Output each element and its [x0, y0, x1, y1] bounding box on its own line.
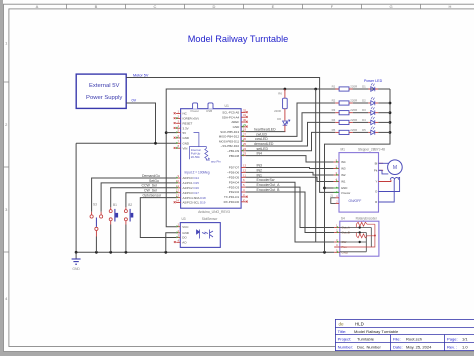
- resistor R5: [332, 128, 369, 135]
- svg-text:RotaryEncoder: RotaryEncoder: [356, 217, 378, 221]
- wire EncoderOut_B: [246, 192, 335, 233]
- svg-text:B: B: [95, 4, 98, 9]
- jumper J1 ON/OFF: [330, 194, 361, 204]
- svg-text:TX-PD1-D1: TX-PD1-D1: [224, 195, 240, 199]
- junction 0V/GND: [154, 142, 157, 145]
- svg-text:ccwLED: ccwLED: [255, 137, 268, 141]
- svg-text:13: 13: [243, 164, 247, 168]
- svg-text:MISO-PB4-D12: MISO-PB4-D12: [219, 135, 240, 139]
- U1 right unconnected x-marks: [246, 111, 248, 202]
- svg-text:Power LED: Power LED: [364, 79, 383, 83]
- svg-text:Input Z = 100Meg: Input Z = 100Meg: [185, 171, 210, 175]
- svg-text:Motor 5V: Motor 5V: [133, 73, 149, 77]
- svg-text:R6: R6: [278, 91, 282, 95]
- svg-text:11: 11: [243, 173, 246, 177]
- svg-text:setLED: setLED: [257, 147, 269, 151]
- svg-text:DO: DO: [182, 236, 187, 240]
- svg-text:EncoderOut_A: EncoderOut_A: [257, 183, 281, 187]
- svg-text:D5: D5: [362, 128, 366, 132]
- wire CCW_Sel: [111, 188, 176, 208]
- svg-text:USB: USB: [206, 109, 212, 113]
- svg-text:24: 24: [243, 147, 247, 151]
- svg-text:Title:: Title:: [338, 329, 347, 334]
- svg-text:A: A: [36, 4, 39, 9]
- wire IN2: [246, 172, 334, 175]
- wire motor lead Y red: [379, 180, 391, 182]
- svg-text:GND: GND: [182, 231, 189, 235]
- wire OptoSensor: [140, 198, 176, 238]
- svg-text:IN4: IN4: [257, 152, 263, 156]
- wire motor Pk lead: [379, 170, 389, 174]
- svg-text:RX-PD0-D0: RX-PD0-D0: [224, 200, 240, 204]
- ruler row ticks: [4, 82, 9, 252]
- svg-text:A0/PC0 D14: A0/PC0 D14: [183, 176, 200, 180]
- title block: [335, 319, 474, 350]
- svg-text:Power: Power: [191, 109, 200, 113]
- svg-text:R4: R4: [332, 118, 336, 122]
- svg-text:12: 12: [243, 168, 247, 172]
- M1 right pins: [379, 163, 384, 202]
- power supply PS1: [76, 74, 126, 108]
- LED D2: [362, 97, 390, 105]
- svg-text:cwLED: cwLED: [256, 132, 268, 136]
- LED D3: [362, 107, 390, 115]
- svg-text:B1: B1: [113, 203, 117, 207]
- svg-text:AREF: AREF: [231, 120, 239, 124]
- svg-text:A4/PC4-SDA D18: A4/PC4-SDA D18: [183, 196, 207, 200]
- svg-text:File:: File:: [393, 337, 401, 342]
- push button B1: [109, 203, 118, 252]
- svg-text:3.3V: 3.3V: [183, 126, 189, 130]
- U3 pin green marks: [177, 225, 179, 238]
- svg-text:any Pin: any Pin: [211, 160, 221, 164]
- svg-text:B2: B2: [128, 203, 132, 207]
- LED D1: [362, 83, 390, 91]
- svg-text:J1: J1: [330, 194, 333, 198]
- svg-text:19: 19: [243, 128, 247, 132]
- svg-text:CW_Sel: CW_Sel: [144, 189, 157, 193]
- S4 pin names: [342, 226, 350, 255]
- U1 left unconnected pin x-marks: [174, 112, 176, 203]
- svg-text:IN1: IN1: [341, 180, 346, 184]
- M1 GND Vmotor pin stubs: [334, 188, 339, 192]
- wire motor lead O blue: [379, 178, 400, 192]
- svg-text:1/1: 1/1: [462, 337, 468, 342]
- svg-text:D3: D3: [362, 108, 366, 112]
- S4 contact dots: [359, 226, 361, 243]
- wire ccwLED: [246, 113, 336, 142]
- U1 right pin names: [219, 111, 240, 204]
- svg-text:1.0: 1.0: [462, 344, 468, 349]
- junction GND rail B1: [109, 251, 112, 254]
- U3 AO unconnected x-mark: [174, 241, 176, 243]
- svg-text:Rev. :: Rev. :: [447, 344, 457, 349]
- svg-text:heartbeatLED: heartbeatLED: [254, 128, 276, 132]
- wire DemandGo: [92, 178, 177, 212]
- junction GND rail U3: [164, 251, 167, 254]
- microcontroller U1 Arduino_UNO_REV3: [181, 103, 242, 214]
- svg-text:CCW_Sel: CCW_Sel: [142, 184, 158, 188]
- svg-text:May. 25, 2024: May. 25, 2024: [406, 344, 432, 349]
- S4 pin numbers: [336, 224, 338, 253]
- svg-text:Stepper_28BYJ-48: Stepper_28BYJ-48: [358, 147, 385, 151]
- svg-text:IN3: IN3: [341, 167, 346, 171]
- svg-text:Doc. Number: Doc. Number: [357, 344, 381, 349]
- switch S3 SPDT: [90, 203, 103, 253]
- svg-text:D4: D4: [362, 118, 366, 122]
- wire 0V: [126, 103, 155, 143]
- svg-text:220R: 220R: [274, 109, 281, 113]
- svg-text:0V: 0V: [132, 99, 137, 103]
- svg-text:Power Supply: Power Supply: [86, 95, 122, 101]
- svg-text:S3: S3: [93, 203, 97, 207]
- wire SetGo: [101, 183, 176, 212]
- svg-text:VIN: VIN: [183, 146, 188, 150]
- svg-text:GND: GND: [342, 251, 349, 255]
- svg-text:de: de: [339, 322, 345, 327]
- M1 pin names: [341, 160, 350, 195]
- svg-text:220R: 220R: [350, 128, 357, 132]
- svg-text:A3/PC3 D17: A3/PC3 D17: [183, 191, 200, 195]
- M1 left pins: [334, 162, 339, 182]
- svg-text:Date:: Date:: [393, 344, 403, 349]
- stepper driver M1 Stepper_28BYJ-48: [339, 147, 385, 212]
- M1 left pin green marks: [336, 161, 338, 194]
- junction LED row4 right: [389, 121, 392, 124]
- wire GND left drop: [75, 143, 77, 252]
- svg-text:A1/PC1 D15: A1/PC1 D15: [183, 181, 200, 185]
- resistor R2: [332, 98, 369, 105]
- svg-text:IN2: IN2: [341, 173, 346, 177]
- svg-text:5V: 5V: [183, 131, 187, 135]
- svg-text:Page:: Page:: [447, 337, 458, 342]
- svg-text:R3: R3: [332, 108, 336, 112]
- svg-text:A2/PC2 D16: A2/PC2 D16: [183, 186, 200, 190]
- svg-text:D1: D1: [362, 84, 366, 88]
- svg-text:20-50k: 20-50k: [191, 155, 200, 159]
- wire GND bottom rail: [76, 251, 334, 253]
- svg-text:R2: R2: [332, 98, 336, 102]
- svg-text:Y: Y: [375, 180, 377, 184]
- page edge gray bottom: [0, 352, 474, 356]
- svg-text:IN2: IN2: [257, 168, 263, 172]
- rotary encoder S4: [340, 217, 379, 257]
- svg-text:IN4: IN4: [341, 160, 346, 164]
- svg-text:~PB1-D9: ~PB1-D9: [227, 149, 239, 153]
- svg-text:RESET: RESET: [183, 122, 193, 126]
- M1 right pin names: [374, 162, 378, 205]
- svg-text:IOREF(+5V): IOREF(+5V): [183, 117, 199, 121]
- ground symbol: [72, 252, 81, 271]
- wire IN1: [246, 177, 334, 181]
- LED D6: [277, 117, 290, 132]
- svg-text:H: H: [449, 4, 452, 9]
- svg-text:External 5V: External 5V: [89, 83, 120, 89]
- junction GND rail at ground symbol: [75, 251, 78, 254]
- svg-text:GND: GND: [341, 186, 348, 190]
- M1 left pin numbers: [335, 158, 337, 182]
- svg-text:R: R: [375, 200, 377, 204]
- U1 internal pull-up detail: [185, 133, 222, 175]
- LED D4: [362, 117, 390, 125]
- svg-text:C: C: [154, 4, 157, 9]
- svg-text:R5: R5: [332, 128, 336, 132]
- U1 left pin green input marks: [176, 117, 178, 198]
- wire IN4: [246, 156, 334, 162]
- wire GND horizontal to Arduino pin7: [76, 142, 176, 144]
- junction GND rail S3: [95, 251, 98, 254]
- U1 left pins bank: [176, 114, 181, 203]
- page edge gray left: [0, 0, 3, 356]
- wire Motor5V: [126, 78, 339, 193]
- resistor R4: [332, 118, 369, 125]
- wire stepper GND stub: [325, 187, 334, 189]
- S4 internal contacts: [340, 228, 372, 252]
- U3 pin names: [182, 225, 189, 245]
- svg-text:14: 14: [176, 199, 180, 203]
- svg-text:SCL-PC5-A5: SCL-PC5-A5: [222, 111, 239, 115]
- wire cwLED: [246, 103, 336, 136]
- wire U3 GND drop: [166, 233, 177, 253]
- ruler column ticks: [67, 4, 421, 9]
- svg-text:Bl: Bl: [375, 162, 378, 166]
- wire demandLED: [246, 122, 336, 146]
- svg-text:Arduino_UNO_REV3: Arduino_UNO_REV3: [198, 210, 230, 214]
- svg-text:220R: 220R: [350, 118, 357, 122]
- svg-text:PD7-D7: PD7-D7: [229, 166, 240, 170]
- svg-text:OptoSensor: OptoSensor: [143, 194, 163, 198]
- motor connector bumps: [390, 178, 398, 180]
- wire heartbeatLED: [246, 131, 286, 133]
- svg-text:220R: 220R: [350, 108, 357, 112]
- svg-text:~SS-PB2-D10: ~SS-PB2-D10: [221, 144, 240, 148]
- svg-text:Pk: Pk: [374, 169, 378, 173]
- svg-text:ON/OFF: ON/OFF: [349, 199, 362, 203]
- junction GND rail B2: [125, 251, 128, 254]
- svg-text:M1: M1: [341, 147, 346, 151]
- wire LED cathode rail: [325, 89, 391, 252]
- S4 red junction dot: [374, 235, 376, 237]
- svg-text:PD2-D2: PD2-D2: [229, 190, 240, 194]
- U3 internal opto glyph: [197, 230, 214, 239]
- junction 5V at R6: [284, 88, 287, 91]
- wire Arduino 5V pin: [166, 132, 176, 134]
- LED D5: [362, 127, 390, 135]
- svg-text:D6: D6: [277, 117, 281, 121]
- U1 left pin numbers: [176, 110, 180, 203]
- svg-text:SetGo: SetGo: [149, 179, 159, 183]
- wire motor Bl lead: [379, 162, 389, 164]
- svg-text:A5/PC5-SCL D19: A5/PC5-SCL D19: [183, 201, 206, 205]
- svg-text:HLD: HLD: [355, 321, 364, 326]
- wire setLED: [246, 132, 336, 150]
- wire EncoderOut_A: [246, 187, 335, 227]
- U3 pin numbers: [177, 223, 179, 243]
- U1 right pin numbers: [243, 108, 247, 201]
- wire 5V rail: [166, 89, 390, 227]
- svg-text:GND: GND: [183, 136, 190, 140]
- wire IN3: [246, 168, 334, 169]
- svg-text:E: E: [272, 4, 275, 9]
- svg-text:SlotSensor: SlotSensor: [202, 217, 219, 221]
- wire motor lead R blue: [379, 180, 395, 202]
- U3 pins: [176, 227, 180, 243]
- svg-text:220R: 220R: [350, 98, 357, 102]
- junction 5V at long vertical: [314, 88, 317, 91]
- svg-text:GND: GND: [183, 142, 190, 146]
- resistor R6: [274, 89, 287, 121]
- svg-text:SDA-PC4-A4: SDA-PC4-A4: [222, 115, 240, 119]
- svg-text:U1: U1: [225, 104, 229, 108]
- motor M: [388, 160, 403, 175]
- svg-text:AO: AO: [182, 241, 187, 245]
- opto sensor U3 SlotSensor: [180, 217, 220, 248]
- svg-text:GND: GND: [72, 267, 80, 271]
- junction GND rail right drop: [323, 251, 326, 254]
- svg-text:S4: S4: [341, 217, 345, 221]
- svg-text:~PD6-D6: ~PD6-D6: [227, 171, 240, 175]
- junction LED row5 right: [389, 131, 392, 134]
- svg-text:23: 23: [243, 152, 247, 156]
- svg-text:~PD5-D5: ~PD5-D5: [227, 176, 240, 180]
- U1 right pin green marks: [241, 125, 243, 156]
- svg-text:DemandGo: DemandGo: [142, 174, 160, 178]
- svg-text:M: M: [393, 165, 397, 171]
- svg-text:Number:: Number:: [338, 344, 354, 349]
- junction rail at stepper GND: [323, 187, 326, 190]
- U1 right pins bank: [241, 112, 246, 201]
- resistor R3: [332, 108, 369, 115]
- svg-text:U3: U3: [182, 217, 186, 221]
- svg-text:R1: R1: [332, 84, 336, 88]
- svg-text:Vmotor: Vmotor: [341, 191, 350, 195]
- svg-text:SCK-PB5-D13: SCK-PB5-D13: [220, 130, 239, 134]
- svg-text:D: D: [213, 4, 216, 9]
- U1 left pin names: [183, 112, 207, 205]
- svg-text:27: 27: [243, 132, 247, 136]
- junction 5V at Arduino 5V pin: [165, 131, 168, 134]
- svg-text:Model Railway Turntable: Model Railway Turntable: [188, 34, 289, 44]
- wire EncoderSw: [246, 182, 335, 242]
- junction LED row2 right: [389, 102, 392, 105]
- junction LED row3 right: [389, 111, 392, 114]
- S4 pull-up resistors red: [340, 222, 375, 247]
- svg-text:MOSI-PB3-D11: MOSI-PB3-D11: [219, 139, 240, 143]
- svg-text:26: 26: [243, 137, 247, 141]
- resistor R1: [332, 84, 369, 91]
- svg-text:Turntable: Turntable: [357, 337, 375, 342]
- svg-text:~PD3-D3: ~PD3-D3: [227, 185, 240, 189]
- svg-text:Model Railway Turntable: Model Railway Turntable: [354, 329, 399, 334]
- svg-text:demandLED: demandLED: [254, 142, 274, 146]
- wire CW_Sel: [126, 193, 176, 208]
- svg-text:IN1: IN1: [257, 173, 263, 177]
- svg-text:220R: 220R: [350, 84, 357, 88]
- svg-text:EncoderSw: EncoderSw: [257, 178, 275, 182]
- S4 pin green marks: [337, 226, 339, 253]
- svg-text:IN3: IN3: [257, 164, 263, 168]
- ruler row numbers: [5, 41, 8, 302]
- svg-text:EncoderOut_B: EncoderOut_B: [257, 188, 281, 192]
- svg-text:D2: D2: [362, 98, 366, 102]
- svg-text:Root.sch: Root.sch: [406, 337, 422, 342]
- svg-text:PB0-D8: PB0-D8: [229, 154, 240, 158]
- svg-text:Project:: Project:: [338, 337, 352, 342]
- ruler column letters: [36, 4, 452, 9]
- svg-text:GND: GND: [233, 125, 240, 129]
- S4 pins: [334, 228, 340, 253]
- svg-text:VCC: VCC: [182, 225, 189, 229]
- svg-text:G: G: [389, 4, 392, 9]
- push button B2: [124, 203, 133, 252]
- svg-text:PD4-D4: PD4-D4: [229, 180, 240, 184]
- svg-text:25: 25: [243, 142, 247, 146]
- wire 5V long vertical to encoder SW: [315, 89, 317, 242]
